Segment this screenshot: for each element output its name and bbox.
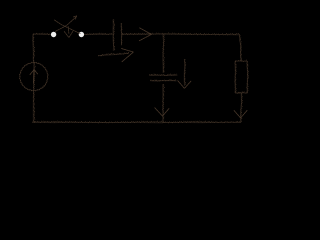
resistor R1 left edge xyxy=(234,61,236,93)
switch S1 motion arrowhead xyxy=(73,16,76,19)
annotation current arrowhead xyxy=(178,81,191,89)
current source I1 circle xyxy=(20,62,48,90)
resistor R1 bottom edge xyxy=(235,92,247,94)
wire bottom left section xyxy=(32,121,163,124)
resistor R1 right edge xyxy=(246,61,249,93)
switch S1 motion arrow curve up xyxy=(55,16,76,31)
wire left vertical upper xyxy=(32,34,35,63)
wire resistor to bottom xyxy=(239,93,242,121)
capacitor C1 left plate xyxy=(112,20,114,51)
current arrowhead bottom of C2 branch xyxy=(155,108,169,116)
annotation current arrow shaft xyxy=(183,59,185,85)
switch S1 blade open xyxy=(54,20,80,34)
wire right vertical to resistor xyxy=(240,35,242,62)
capacitor C2 bottom plate xyxy=(150,80,176,82)
wire top from C1 to right corner xyxy=(121,33,240,36)
wire C2 to bottom xyxy=(162,84,164,122)
capacitor C1 arrow shaft xyxy=(98,53,129,56)
capacitor C1 right plate xyxy=(120,23,122,45)
switch S1 left terminal xyxy=(51,32,56,37)
resistor R1 top edge xyxy=(235,60,247,62)
wire top-left stub to switch xyxy=(33,33,50,36)
switch S1 closing arrow stem xyxy=(67,26,70,33)
wire top to capacitor C2 xyxy=(162,34,165,73)
wire switch to capacitor C1 xyxy=(84,33,113,35)
switch S1 right terminal xyxy=(79,32,84,37)
wire bottom right section xyxy=(162,121,241,124)
current arrow on top wire xyxy=(139,28,151,41)
switch S1 closing arrowhead down xyxy=(64,31,73,38)
current source I1 arrowhead up xyxy=(30,70,38,75)
capacitor C1 arrowhead xyxy=(122,49,134,62)
current arrowhead bottom of R1 branch xyxy=(234,110,247,118)
capacitor C2 top plate xyxy=(149,74,177,76)
wire left vertical through source to bottom xyxy=(32,63,35,122)
current source I1 arrow shaft xyxy=(33,70,35,83)
